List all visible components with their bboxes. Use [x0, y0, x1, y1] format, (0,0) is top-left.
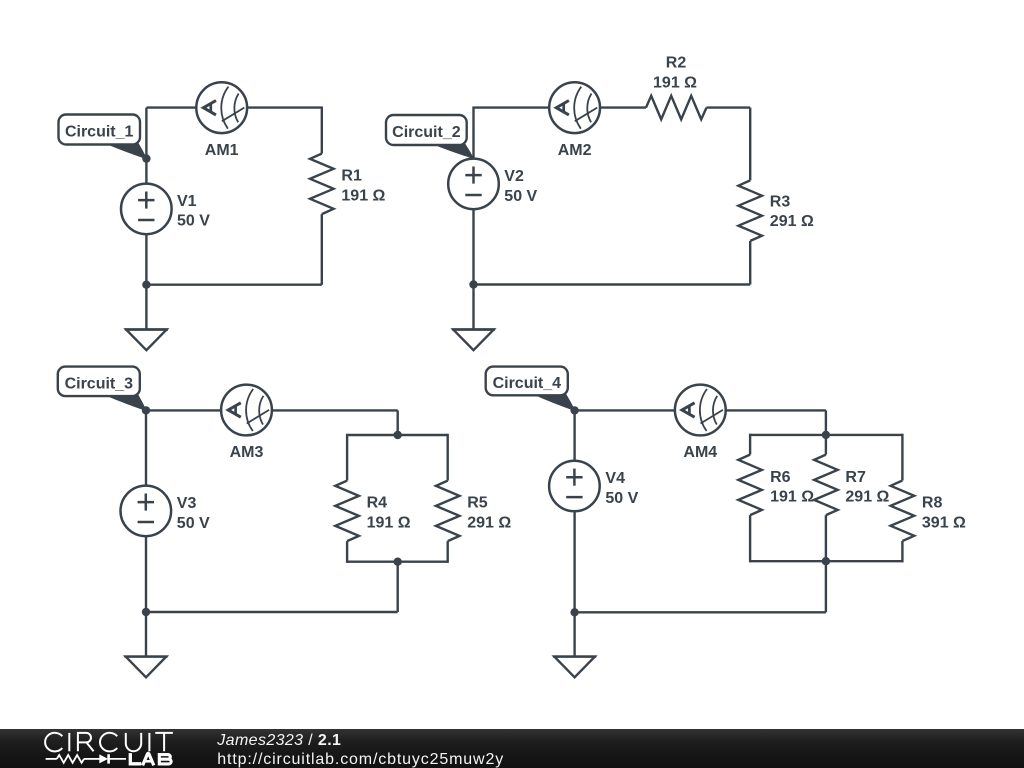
wire circuit3 R4 branch upper	[346, 434, 348, 481]
svg-text:AM1: AM1	[205, 142, 239, 159]
wire circuit1 left (node to V1)	[145, 108, 147, 184]
label AM3	[230, 444, 264, 461]
wire circuit1 ground stem	[145, 285, 147, 330]
node circuit3 rail bottom junction	[394, 558, 402, 566]
wire circuit4 bottom	[575, 611, 826, 613]
svg-text:191 Ω: 191 Ω	[367, 514, 411, 531]
resistor R7	[814, 455, 838, 515]
wire circuit4 R6 branch upper	[749, 434, 751, 455]
svg-text:50 V: 50 V	[177, 213, 210, 230]
svg-text:R3: R3	[770, 193, 791, 210]
wire circuit3 R4 branch lower	[346, 541, 348, 563]
svg-text:Circuit_3: Circuit_3	[65, 376, 134, 393]
label R5 value	[467, 495, 511, 532]
label R1 value	[341, 168, 385, 205]
flag Circuit_1	[59, 115, 147, 159]
wire circuit3 top	[146, 409, 398, 411]
svg-text:Circuit_4: Circuit_4	[493, 375, 562, 392]
voltage source V3	[121, 486, 172, 537]
svg-text:291 Ω: 291 Ω	[770, 213, 814, 230]
label V3 value	[177, 495, 210, 532]
wire circuit2 right upper	[749, 108, 751, 181]
svg-text:191 Ω: 191 Ω	[770, 489, 814, 506]
wire circuit2 top right	[707, 106, 751, 108]
wire circuit4 parallel bottom rail	[750, 560, 902, 562]
wire circuit3 V3 to bottom	[145, 536, 147, 612]
svg-text:R7: R7	[845, 469, 866, 486]
node circuit3 bottom junction	[142, 608, 150, 616]
footer bar background	[0, 729, 1024, 768]
wire circuit1 bottom	[146, 284, 321, 286]
label V4 value	[605, 470, 638, 507]
svg-text:V4: V4	[605, 470, 625, 487]
svg-text:50 V: 50 V	[177, 515, 210, 532]
label R8 value	[922, 495, 966, 532]
ammeter AM4	[675, 385, 726, 436]
resistor R5	[436, 481, 460, 541]
wire circuit1 top	[146, 106, 321, 108]
flag Circuit_4	[486, 367, 575, 411]
label R7 value	[845, 469, 889, 506]
wire circuit4 left (node to V4)	[573, 410, 575, 461]
svg-text:V3: V3	[177, 495, 197, 512]
svg-text:50 V: 50 V	[504, 188, 537, 205]
wire circuit3 bottom	[146, 611, 398, 613]
node circuit3 flag anchor	[142, 406, 150, 414]
node circuit1 bottom junction	[142, 281, 150, 289]
svg-text:V2: V2	[504, 168, 524, 185]
wire circuit3 parallel bottom rail	[347, 561, 448, 563]
svg-text:James2323 / 2.1: James2323 / 2.1	[216, 732, 341, 749]
label V1 value	[177, 193, 210, 230]
wire circuit2 bottom	[474, 283, 751, 285]
wire circuit4 parallel top rail	[750, 434, 902, 436]
node circuit2 bottom junction	[469, 280, 477, 288]
logo CIRCUIT wordmark	[45, 733, 173, 752]
wire circuit4 top	[575, 409, 826, 411]
svg-text:R4: R4	[367, 495, 388, 512]
svg-text:V1: V1	[177, 193, 197, 210]
svg-text:291 Ω: 291 Ω	[845, 489, 889, 506]
ground circuit3	[124, 657, 167, 678]
label R3 value	[770, 193, 814, 230]
svg-text:Circuit_1: Circuit_1	[65, 124, 134, 141]
wire circuit4 R7 branch upper	[825, 435, 827, 455]
label AM2	[558, 142, 592, 159]
svg-text:391 Ω: 391 Ω	[922, 515, 966, 532]
label R2 value	[653, 74, 697, 91]
svg-text:AM2: AM2	[558, 142, 592, 159]
wire circuit4 ground stem	[573, 612, 575, 657]
svg-text:191 Ω: 191 Ω	[341, 187, 385, 204]
wire circuit3 left (node to V3)	[145, 410, 147, 486]
voltage source V2	[448, 159, 499, 210]
logo LAB wordmark	[130, 753, 171, 765]
wire circuit4 R6 branch lower	[749, 515, 751, 562]
svg-text:R5: R5	[467, 495, 488, 512]
svg-text:291 Ω: 291 Ω	[467, 514, 511, 531]
label R2 name	[666, 55, 687, 72]
wire circuit1 right upper	[321, 107, 323, 154]
ammeter AM3	[221, 385, 272, 436]
wire circuit2 left (corner to V2)	[472, 107, 474, 160]
wire circuit3 R5 branch upper	[447, 434, 449, 481]
flag Circuit_3	[58, 367, 146, 411]
wire circuit3 drop to rail	[397, 410, 399, 435]
svg-text:50 V: 50 V	[605, 490, 638, 507]
wire circuit4 R8 branch upper	[901, 434, 903, 481]
ground circuit1	[125, 330, 168, 351]
wire circuit4 V4 to bottom	[573, 511, 575, 612]
node circuit4 rail top junction	[822, 431, 830, 439]
label AM1	[205, 142, 239, 159]
voltage source V1	[121, 184, 172, 235]
wire circuit2 right lower	[749, 241, 751, 285]
wire circuit3 ground stem	[145, 612, 147, 657]
resistor R6	[738, 455, 762, 515]
node circuit3 rail top junction	[394, 431, 402, 439]
wire circuit1 right lower	[321, 214, 323, 285]
ammeter AM2	[549, 82, 600, 133]
node circuit1 flag anchor	[142, 154, 150, 162]
label V2 value	[504, 168, 537, 205]
wire circuit3 R5 branch lower	[447, 541, 449, 563]
svg-text:AM4: AM4	[683, 444, 717, 461]
resistor R3	[738, 180, 762, 241]
wire circuit4 drop to rail	[825, 410, 827, 435]
wire circuit3 rail to bottom	[397, 562, 399, 612]
wire circuit2 top left	[474, 106, 647, 108]
wire circuit4 R7 branch lower	[825, 515, 827, 561]
wire circuit2 V2 to bottom	[472, 209, 474, 285]
resistor R2	[646, 96, 707, 120]
svg-text:191 Ω: 191 Ω	[653, 74, 697, 91]
voltage source V4	[549, 461, 600, 512]
wire circuit4 R8 branch lower	[901, 541, 903, 562]
resistor R8	[891, 481, 915, 542]
resistor R4	[335, 481, 359, 541]
resistor R1	[310, 154, 334, 215]
node circuit4 bottom junction	[570, 608, 578, 616]
svg-text:AM3: AM3	[230, 444, 264, 461]
label R4 value	[367, 495, 411, 532]
svg-text:R8: R8	[922, 495, 943, 512]
wire circuit3 parallel top rail	[347, 434, 448, 436]
node circuit4 flag anchor	[570, 406, 578, 414]
wire circuit2 ground stem	[472, 285, 474, 331]
svg-text:http://circuitlab.com/cbtuyc25: http://circuitlab.com/cbtuyc25muw2y	[217, 751, 504, 768]
svg-text:R2: R2	[666, 55, 687, 72]
ground circuit4	[553, 657, 596, 678]
node circuit4 rail bottom junction	[822, 557, 830, 565]
wire circuit1 V1 to bottom	[145, 234, 147, 285]
svg-text:R6: R6	[770, 469, 791, 486]
ammeter AM1	[196, 82, 247, 133]
flag Circuit_2	[386, 115, 473, 158]
svg-text:R1: R1	[341, 168, 362, 185]
label R6 value	[770, 469, 814, 506]
label AM4	[683, 444, 717, 461]
wire circuit4 rail to bottom	[825, 561, 827, 612]
logo resistor-diode symbol	[46, 754, 126, 763]
svg-text:Circuit_2: Circuit_2	[392, 124, 461, 141]
ground circuit2	[452, 330, 495, 351]
